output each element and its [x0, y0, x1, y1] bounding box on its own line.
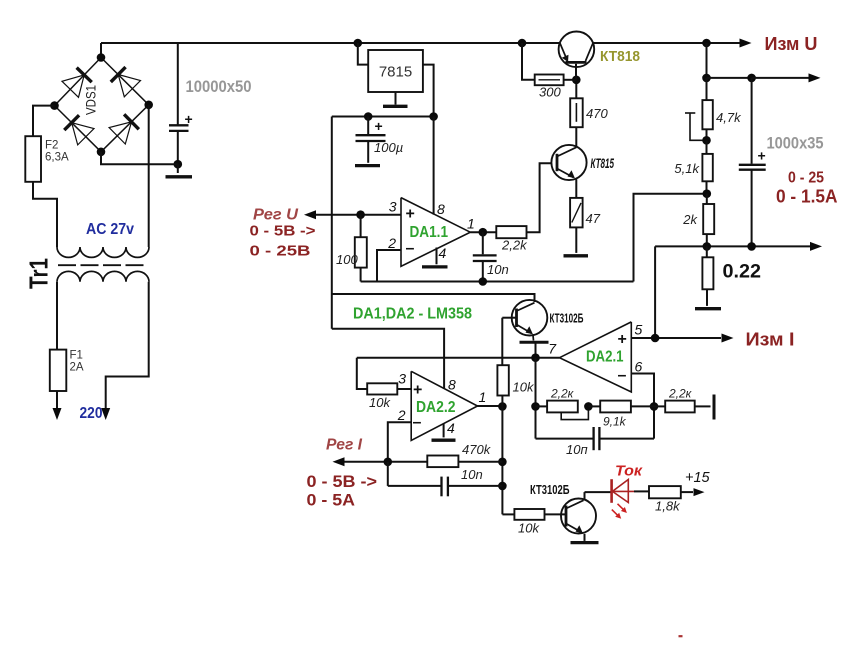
arrow Izm U output — [740, 39, 752, 48]
wire top rail to C1 plus — [177, 43, 179, 125]
wire top rail KT818 collector to Izm U junction — [593, 42, 740, 44]
wire DA2.2 output to R16 — [502, 513, 514, 515]
node bridge left (AC) — [50, 101, 59, 110]
resistor R7 5,1k — [706, 140, 708, 154]
svg-text:2A: 2A — [70, 362, 84, 374]
svg-text:+: + — [758, 148, 766, 164]
node pin6 / R10-R11 junction — [650, 402, 659, 411]
resistor R4 47 (emitter) — [570, 198, 583, 228]
svg-text:0 - 5A: 0 - 5A — [307, 491, 356, 510]
svg-text:47: 47 — [586, 211, 601, 226]
svg-text:5: 5 — [635, 322, 643, 338]
wire +15V branch to KT3102 collector — [332, 294, 535, 302]
capacitor C4 10n (DA1.1 output to feedback) — [482, 232, 484, 254]
svg-text:+: + — [185, 111, 193, 127]
svg-text:Ток: Ток — [615, 463, 643, 480]
node +15V at 7815 output — [429, 112, 438, 121]
svg-text:+: + — [413, 382, 422, 399]
svg-text:10k: 10k — [513, 380, 535, 395]
wire 7815 output down to DA1.1 pin 8 — [433, 117, 435, 215]
svg-text:–: – — [406, 240, 415, 257]
node Reg U / R 100 — [356, 210, 365, 219]
svg-text:Tr1: Tr1 — [24, 258, 54, 289]
arrow output plus terminal — [809, 73, 821, 82]
transistor Q3 emitter with arrow — [517, 325, 532, 334]
svg-text:DA1,DA2 - LM358: DA1,DA2 - LM358 — [353, 306, 472, 323]
wire minus row down to Izm I net — [654, 246, 656, 338]
svg-text:10k: 10k — [518, 521, 540, 536]
node output/R15 — [498, 458, 507, 467]
svg-text:0 - 5В ->: 0 - 5В -> — [250, 223, 316, 240]
wire output minus row — [655, 245, 810, 247]
resistor R3 470 — [570, 98, 583, 127]
LED VD1 triangle — [612, 480, 628, 503]
arrow Izm I output — [722, 334, 734, 343]
wire 7815 output — [423, 65, 434, 117]
wire R5 to KT818 base node — [564, 79, 577, 81]
fuse F2 — [25, 136, 41, 182]
transformer Tr1 core (dashed) — [58, 264, 76, 266]
node Reg I / pin2 / C6 — [384, 458, 393, 467]
wire Reg U to DA1.1 pin 3 — [316, 214, 401, 216]
ground terminal below C1 — [177, 164, 179, 173]
svg-text:2,2к: 2,2к — [550, 387, 575, 401]
node KT818 base — [572, 76, 581, 85]
node R6/R7 junction — [702, 136, 711, 145]
resistor R2 2,2k — [496, 226, 526, 238]
node top rail at R5 300 — [518, 39, 527, 48]
resistor R14 10k (to Q3 base) — [501, 318, 503, 366]
bridge rectifier VDS1 edge top-left — [55, 58, 102, 106]
svg-text:10n: 10n — [461, 467, 483, 482]
svg-text:8: 8 — [448, 377, 456, 393]
wire bridge top riser — [100, 43, 102, 58]
op-amp DA2.1 triangle (points left) — [560, 322, 632, 392]
wire Q3 emitter bar to pin7 net — [535, 342, 537, 358]
transistor KT815 emitter with arrow — [557, 169, 574, 178]
wire DA2.1 pin 5 to Izm I — [631, 337, 721, 339]
arrow Reg U input — [304, 210, 316, 219]
wire F1 to 220 terminal — [56, 391, 58, 409]
svg-text:–: – — [413, 414, 422, 431]
svg-text:300: 300 — [539, 85, 561, 100]
wire C2 to ground — [367, 141, 369, 163]
wire DA2.2 output vertical — [501, 396, 503, 515]
bridge VDS1 edge bottom-left — [55, 106, 102, 152]
svg-text:220: 220 — [80, 405, 103, 422]
resistor R12r 2,2k right — [654, 405, 665, 407]
diode VDS1 D3 (- to left AC) cathode bar — [64, 115, 79, 130]
svg-text:2k: 2k — [682, 212, 698, 227]
svg-text:0 - 25В: 0 - 25В — [250, 243, 311, 260]
svg-text:Изм U: Изм U — [765, 34, 818, 54]
wire R2 to KT815 base — [527, 163, 552, 232]
transistor Q1 KT818 body — [559, 32, 595, 68]
LED VD1 cathode bar — [610, 479, 613, 503]
svg-text:7: 7 — [548, 341, 557, 357]
svg-text:–: – — [618, 367, 627, 384]
svg-text:10000x50: 10000x50 — [186, 78, 252, 96]
transistor Q3 collector — [517, 303, 535, 311]
wire top +V rail (rectifier output to KT818 emitter) — [101, 42, 560, 44]
node DA1.1 output — [479, 228, 488, 237]
resistor R6 4,7k (trimmer) — [706, 78, 708, 100]
transistor KT815 collector — [557, 147, 576, 156]
wire F2 to transformer secondary left — [33, 182, 57, 247]
svg-text:Рег I: Рег I — [326, 437, 363, 454]
diode VDS1 D4 (- to right AC) triangle — [109, 122, 131, 144]
wire feedback up to divider tap — [634, 194, 707, 282]
transformer Tr1 secondary winding (AC 27v) — [57, 247, 149, 257]
svg-text:0 - 25: 0 - 25 — [788, 170, 824, 187]
svg-text:100µ: 100µ — [374, 140, 403, 155]
ground pin 4 of DA1.1 — [436, 248, 438, 265]
ground bar under R4 — [564, 254, 589, 257]
ground pin 4 of DA2.2 — [443, 424, 445, 437]
svg-text:6,3A: 6,3A — [45, 152, 69, 164]
node output/C6 — [498, 482, 507, 491]
svg-text:Рег U: Рег U — [253, 207, 299, 224]
svg-text:10k: 10k — [369, 395, 391, 410]
wire R3 top to base node — [575, 80, 577, 99]
capacitor C2 100u plates — [356, 134, 386, 136]
transistor KT818 collector (to rail) — [586, 43, 594, 61]
capacitor C6 10n (DA2.2 feedback) — [387, 462, 389, 486]
arrow +15 terminal — [694, 488, 705, 496]
svg-text:6: 6 — [635, 359, 643, 375]
node bridge right (AC) — [144, 101, 153, 110]
svg-text:1: 1 — [467, 216, 475, 232]
svg-text:1,8k: 1,8k — [655, 499, 681, 514]
svg-text:+: + — [618, 331, 627, 348]
arrow Reg I input — [333, 457, 345, 466]
wire Q4 collector to LED — [585, 491, 612, 493]
svg-text:10п: 10п — [566, 442, 588, 457]
node minus rail junction — [174, 160, 183, 169]
resistor R16 10k (base) — [514, 509, 544, 520]
svg-text:3: 3 — [398, 371, 406, 387]
node Izm I / minus-row — [651, 334, 660, 343]
node top rail to 7815 input — [354, 39, 363, 48]
ground bar under R9 — [695, 307, 721, 310]
wire C1 minus to minus node — [177, 131, 179, 164]
ground bar under Q4 emitter — [571, 541, 599, 544]
transistor KT818 emitter with arrow (from rail) — [560, 43, 568, 61]
svg-text:КТ818: КТ818 — [600, 49, 640, 65]
transistor Q3 base bar — [515, 309, 518, 328]
resistor R17 1,8k — [649, 486, 681, 498]
diode VDS1 D1 (left AC to +) triangle — [62, 75, 84, 97]
arrow 220 terminal right — [101, 408, 110, 420]
wire output row to C3 — [707, 77, 752, 79]
svg-text:3: 3 — [389, 199, 397, 215]
transistor Q3 KT3102B body — [512, 300, 548, 336]
node output row junction — [702, 74, 711, 83]
wire primary right to 220 terminal — [106, 282, 149, 409]
svg-text:F1: F1 — [70, 350, 83, 362]
wire bridge left AC to fuse F2 — [33, 106, 55, 137]
transistor KT815 base bar — [556, 154, 559, 171]
svg-text:+: + — [375, 118, 383, 134]
arrow output minus terminal — [810, 242, 822, 251]
node +15V at C2 — [364, 112, 373, 121]
diode VDS1 D3 (- to left AC) triangle — [72, 123, 94, 145]
svg-text:+15: +15 — [685, 470, 711, 486]
wire primary left to fuse F1 — [56, 282, 58, 350]
bridge VDS1 edge bottom-right — [101, 105, 149, 152]
wire bridge right AC to transformer secondary right — [148, 105, 150, 247]
svg-text:VDS1: VDS1 — [84, 85, 99, 115]
svg-text:2: 2 — [397, 407, 406, 423]
node C3 bottom — [747, 242, 756, 251]
wire KT818 base down — [575, 64, 577, 80]
svg-text:DA2.1: DA2.1 — [586, 349, 624, 366]
wire +15V to DA2.2 pin 8 — [332, 329, 444, 389]
svg-text:8: 8 — [437, 201, 445, 217]
stray red mark bottom — [679, 635, 683, 637]
transistor Q4 emitter with arrow — [566, 524, 582, 533]
node DA2.2 output — [498, 402, 507, 411]
wire DA2.2 output — [478, 405, 503, 407]
wire LED to R17 — [634, 490, 649, 492]
node C3 top — [747, 74, 756, 83]
node Izm U junction — [702, 39, 711, 48]
transistor Q4 base bar — [565, 506, 568, 527]
node row left — [531, 402, 540, 411]
op-amp DA2.2 triangle — [411, 371, 477, 440]
capacitor C5 10n (DA2.1 feedback) — [536, 438, 594, 440]
svg-text:1: 1 — [479, 389, 487, 405]
ground pin of 7815 — [395, 92, 397, 105]
resistor R15 470k — [427, 456, 458, 468]
wire pin7-node down to 2,2k row — [535, 358, 537, 439]
svg-text:470k: 470k — [462, 442, 492, 457]
node bridge top (+) — [97, 53, 106, 62]
svg-text:5,1k: 5,1k — [674, 161, 700, 176]
svg-text:9,1k: 9,1k — [603, 415, 627, 429]
node pin7/Q3 emitter — [531, 353, 540, 362]
transistor Q4 collector — [566, 500, 584, 508]
arrow 220 terminal left — [53, 408, 62, 420]
svg-text:1000x35: 1000x35 — [767, 135, 824, 153]
svg-text:0 - 5В ->: 0 - 5В -> — [307, 472, 378, 491]
svg-text:AC 27v: AC 27v — [86, 221, 134, 238]
transistor KT818 base bar — [566, 61, 587, 64]
wire DA1.1 pin 2 to feedback net — [377, 250, 401, 282]
svg-text:+: + — [406, 206, 415, 223]
diode VDS1 D1 (left AC to +) cathode bar — [77, 68, 92, 83]
node feedback at C4 — [479, 277, 488, 286]
capacitor C3 1000x35 — [751, 78, 753, 164]
node divider tap R7/R8 — [703, 189, 712, 198]
wire +15V to C2 — [367, 117, 369, 135]
wire DA1.1 output — [470, 231, 496, 233]
trimmer wiper of R10 — [561, 406, 588, 419]
node bridge bottom (-) — [97, 148, 106, 157]
terminal bar right of 2,2k — [713, 395, 716, 420]
LED VD1 emission arrows — [618, 504, 625, 510]
resistor R11 9,1k — [588, 405, 600, 407]
regulator U2 7815 body — [368, 50, 423, 92]
wire Reg I to R15 — [345, 461, 428, 463]
svg-text:7815: 7815 — [379, 64, 412, 81]
wire DA2.1 pin 6 — [631, 374, 654, 439]
bridge VDS1 edge top-right — [101, 58, 149, 105]
svg-text:КТ815: КТ815 — [591, 156, 615, 171]
svg-text:Изм I: Изм I — [746, 330, 795, 350]
node R8 bottom / R9 top — [703, 242, 712, 251]
svg-text:2: 2 — [387, 235, 396, 251]
transistor Q2 KT815 body — [551, 145, 586, 180]
svg-text:4: 4 — [439, 245, 447, 261]
resistor R9 0.22 (shunt) — [706, 246, 708, 257]
capacitor C1 10000x50 plates — [169, 124, 189, 126]
emitter bar of Q3 — [520, 341, 549, 344]
wire DA2.2 pin 2 — [388, 422, 411, 462]
svg-text:F2: F2 — [45, 140, 58, 152]
svg-text:0 - 1.5A: 0 - 1.5A — [776, 187, 838, 207]
diode VDS1 D2 (right AC to +) cathode bar — [111, 67, 126, 82]
svg-text:2,2к: 2,2к — [668, 387, 693, 401]
wire bridge minus to C1 node — [101, 152, 178, 164]
resistor R8 2k — [706, 194, 708, 204]
resistor R10 2,2k (trimmer) left — [536, 405, 548, 407]
wire R4 to ground — [575, 227, 577, 253]
svg-text:0.22: 0.22 — [723, 262, 762, 283]
svg-text:КТ3102Б: КТ3102Б — [550, 312, 584, 326]
node R10/R11 junction — [584, 402, 593, 411]
svg-text:4: 4 — [447, 420, 455, 436]
svg-text:КТ3102Б: КТ3102Б — [530, 482, 570, 497]
wire Izm U junction down — [706, 43, 708, 78]
svg-text:10n: 10n — [487, 262, 509, 277]
ground bar under C2 — [355, 164, 380, 167]
resistor R5 300 (base drive) — [522, 43, 535, 80]
fuse F1 — [50, 350, 67, 391]
op-amp DA1.1 triangle — [401, 198, 470, 267]
svg-text:100: 100 — [336, 252, 358, 267]
wire +15V rail — [332, 116, 434, 118]
resistor R13 10k (pin3) — [357, 358, 367, 389]
svg-text:DA1.1: DA1.1 — [410, 224, 449, 241]
diode VDS1 D4 (- to right AC) cathode bar — [124, 114, 139, 129]
wire Q3 emitter to bar — [532, 334, 535, 340]
resistor R1 100 — [360, 215, 362, 238]
transistor Q4 KT3102B body — [561, 499, 596, 534]
diode VDS1 D2 (right AC to +) triangle — [118, 75, 140, 97]
trimmer wiper of R6 — [685, 112, 695, 114]
wire feedback net (pin2/divider) — [361, 281, 634, 283]
transformer Tr1 primary winding — [57, 271, 149, 281]
wire 7815 input — [358, 43, 368, 65]
svg-text:DA2.2: DA2.2 — [416, 399, 456, 416]
wire +15V vertical down left side — [331, 117, 333, 329]
wire DA2.1 pin 7 net — [357, 357, 560, 359]
svg-text:2,2k: 2,2k — [501, 238, 528, 253]
wire Q3 base to R12 — [502, 317, 516, 319]
wire R17 to +15 arrow — [681, 491, 693, 493]
svg-text:470: 470 — [586, 106, 608, 121]
wire output row to arrow — [752, 77, 809, 79]
LED VD1 wire through — [612, 490, 634, 492]
svg-text:4,7k: 4,7k — [716, 110, 742, 125]
